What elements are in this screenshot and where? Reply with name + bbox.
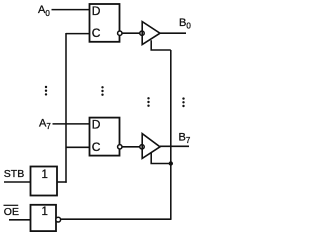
ellipsis column B outputs [182, 97, 184, 107]
junction dot: U4 enable to bus [169, 161, 173, 165]
wire buffer U3 enable stub [151, 40, 171, 50]
latch U1 box [90, 4, 120, 42]
ellipsis column latches [101, 86, 103, 96]
wire STB input into buffer U5 [4, 181, 30, 183]
svg-text:C: C [92, 26, 101, 40]
tri-state buffer U4 [142, 134, 160, 159]
ellipsis column A inputs [45, 86, 47, 96]
svg-text:1: 1 [42, 169, 48, 181]
svg-text:OE: OE [4, 206, 19, 218]
wire OE enable bus vertical [170, 50, 172, 219]
latch U2 box [90, 118, 120, 156]
wire A0 input to latch U1 D pin [52, 9, 90, 11]
wire latch U2 Q to buffer U4 input [122, 146, 140, 148]
inverter U6 box (OE driver) [31, 205, 57, 231]
ellipsis column buffers [147, 97, 149, 107]
wire OE input into inverter U6 [9, 219, 30, 221]
tri-state buffer U3 [142, 22, 160, 45]
node: buffer U3 input circle [140, 31, 144, 35]
node: inverter U6 output inversion bubble [56, 217, 61, 222]
wire buffer U4 enable stub [151, 153, 171, 164]
wire buffer U4 output to B7 [160, 145, 189, 147]
wire STB bus to latch U2 C input [66, 146, 89, 148]
node: buffer U4 input circle [140, 145, 144, 149]
wire A7 input to latch U2 D pin [53, 123, 90, 125]
wire buffer U3 output to B0 [160, 32, 186, 34]
wire inverter U6 output to enable bus [61, 218, 172, 220]
overline of OE [4, 204, 19, 206]
svg-text:D: D [92, 118, 101, 132]
wire latch U1 Q to buffer U3 input [122, 32, 140, 34]
svg-text:STB: STB [4, 168, 24, 180]
wire STB bus to latch U1 C input [66, 33, 89, 35]
buffer U5 box (STB driver) [31, 167, 58, 196]
node: latch U1 Q output circle [118, 31, 122, 35]
svg-text:C: C [92, 140, 101, 154]
svg-text:1: 1 [42, 206, 48, 218]
node: latch U2 Q output circle [118, 145, 122, 149]
svg-text:D: D [92, 4, 101, 18]
wire buffer U5 output to STB bus [57, 181, 67, 183]
wire STB bus vertical [65, 33, 67, 183]
